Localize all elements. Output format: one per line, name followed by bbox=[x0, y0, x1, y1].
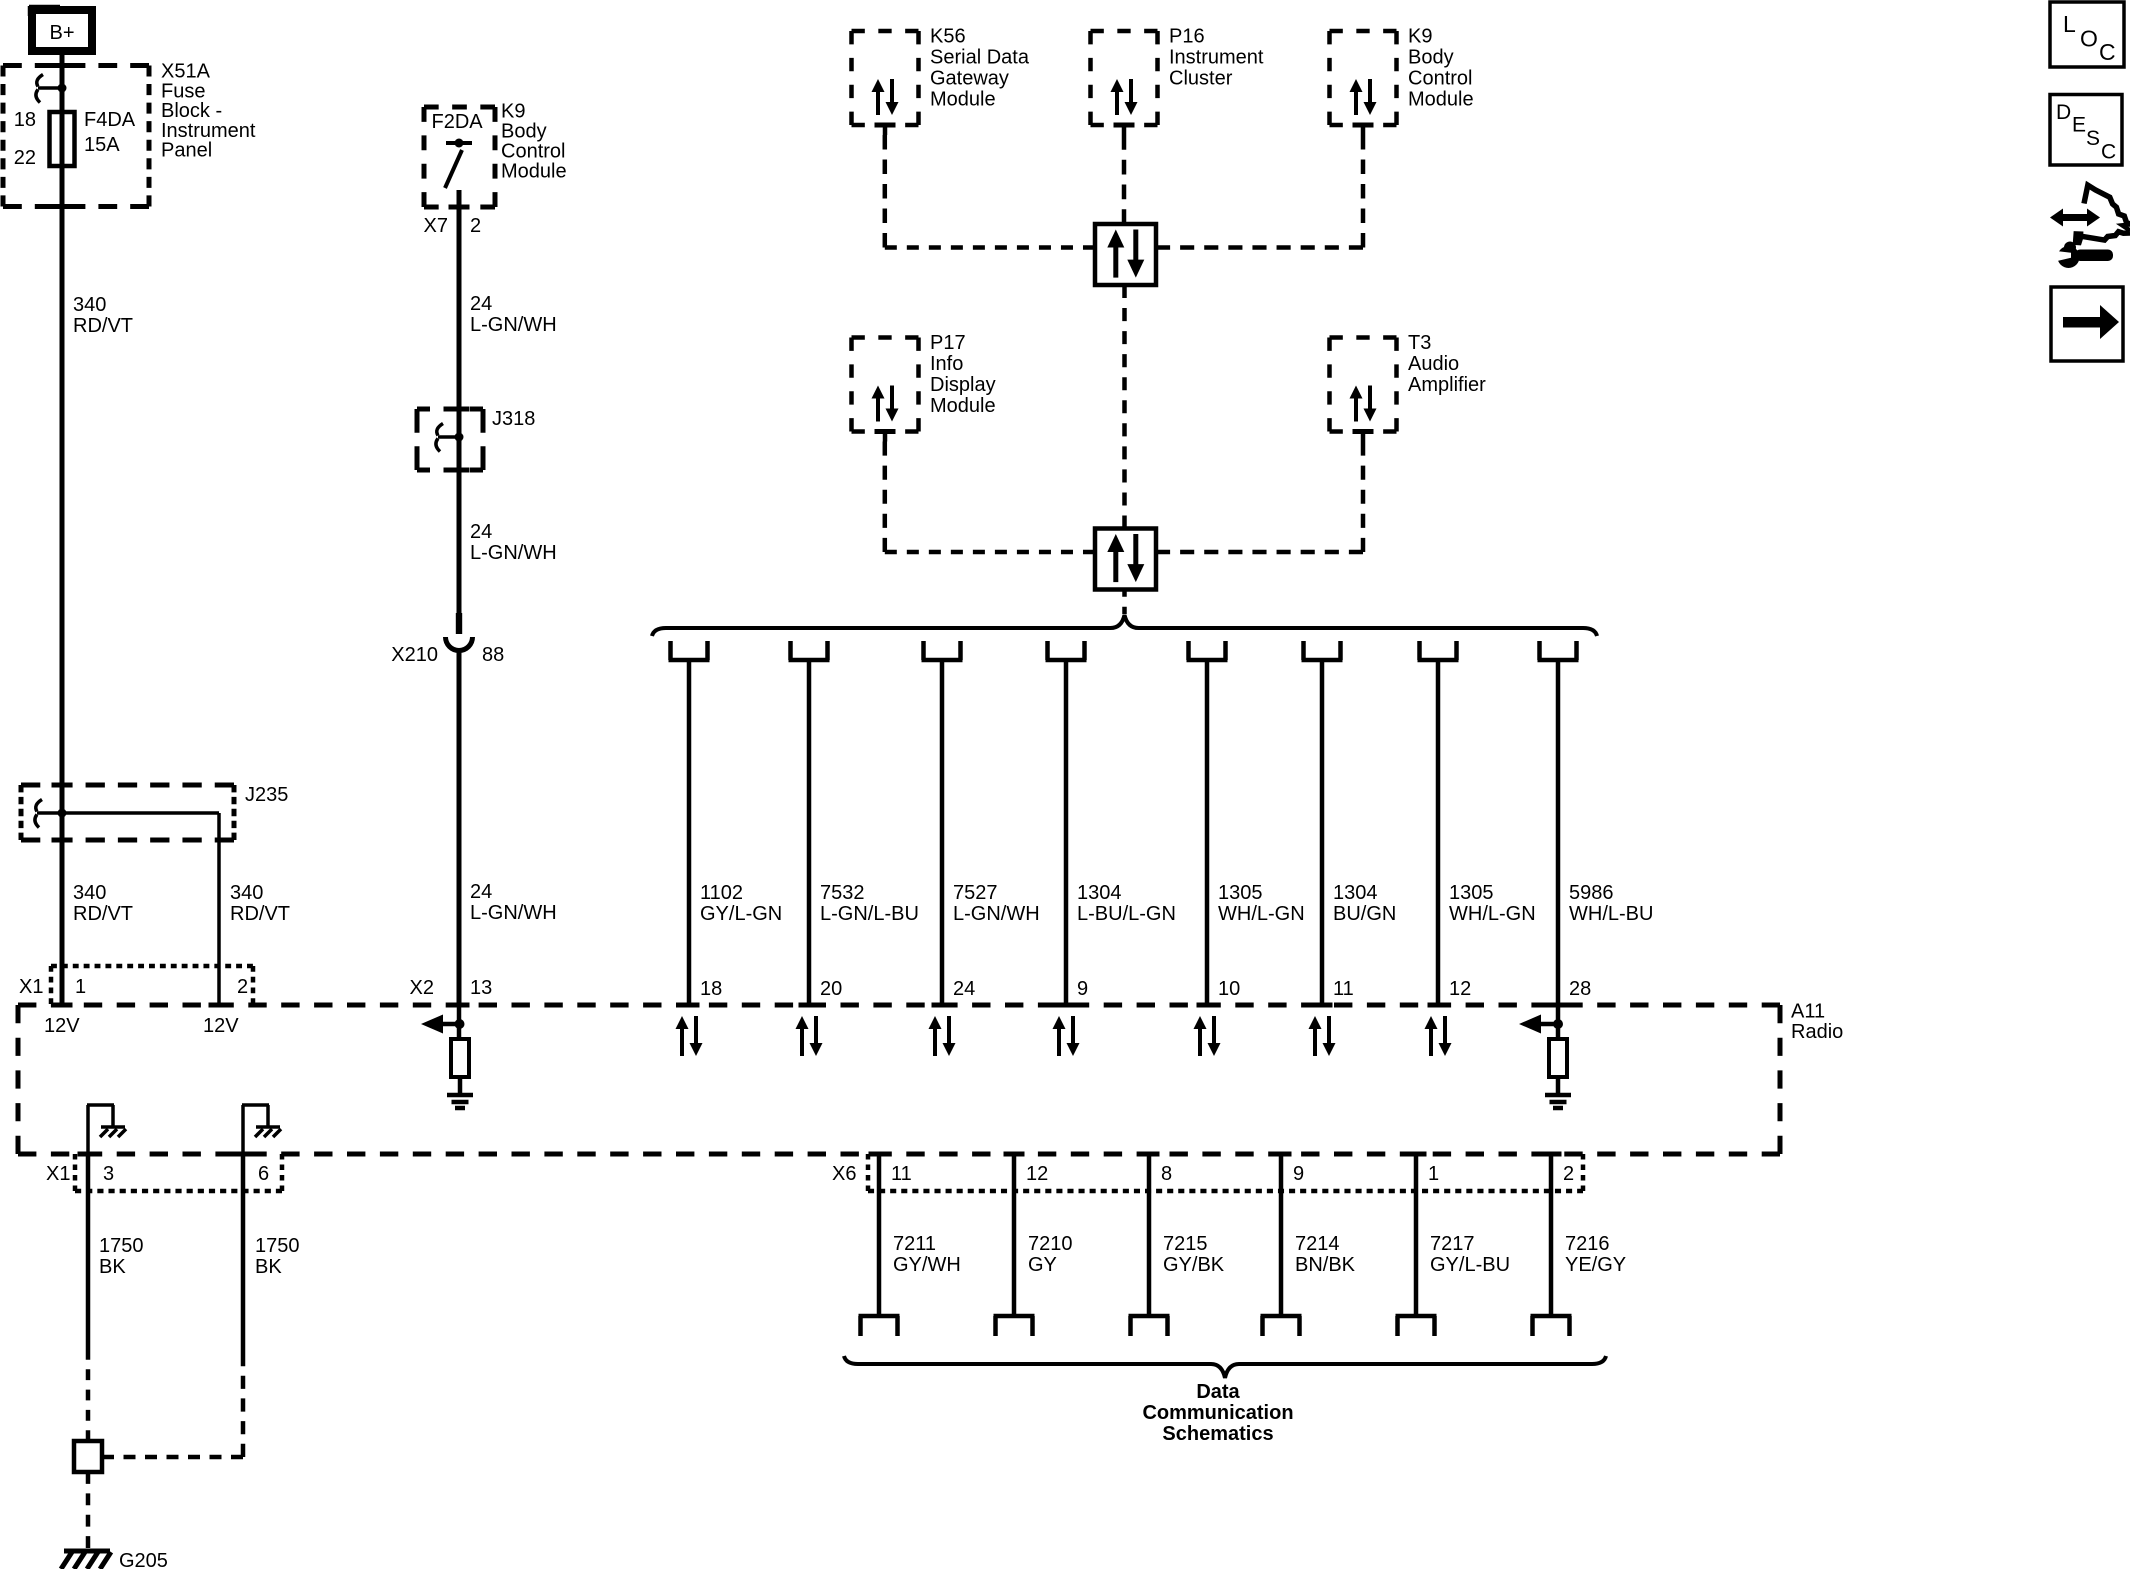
svg-text:340: 340 bbox=[230, 882, 263, 904]
svg-text:WH/L-GN: WH/L-GN bbox=[1449, 903, 1536, 925]
svg-text:88: 88 bbox=[482, 644, 504, 666]
svg-text:1305: 1305 bbox=[1218, 882, 1263, 904]
svg-text:20: 20 bbox=[820, 978, 842, 1000]
svg-text:24: 24 bbox=[470, 881, 492, 903]
svg-text:18: 18 bbox=[700, 978, 722, 1000]
svg-text:T3: T3 bbox=[1408, 332, 1431, 354]
svg-text:11: 11 bbox=[891, 1163, 912, 1185]
svg-text:L-GN/WH: L-GN/WH bbox=[470, 902, 557, 924]
svg-text:A11: A11 bbox=[1791, 1001, 1825, 1023]
svg-text:12: 12 bbox=[1449, 978, 1471, 1000]
svg-text:1305: 1305 bbox=[1449, 882, 1494, 904]
svg-text:24: 24 bbox=[470, 521, 492, 543]
svg-text:X51A: X51A bbox=[161, 61, 211, 83]
svg-text:2: 2 bbox=[237, 976, 248, 998]
svg-text:7532: 7532 bbox=[820, 882, 865, 904]
svg-text:K9: K9 bbox=[1408, 26, 1432, 48]
svg-text:GY/WH: GY/WH bbox=[893, 1254, 961, 1276]
svg-text:G205: G205 bbox=[119, 1550, 168, 1569]
svg-text:X210: X210 bbox=[391, 644, 438, 666]
svg-text:BK: BK bbox=[255, 1256, 282, 1278]
svg-text:13: 13 bbox=[470, 977, 492, 999]
svg-text:B+: B+ bbox=[49, 22, 74, 44]
svg-text:3: 3 bbox=[103, 1163, 114, 1185]
svg-text:9: 9 bbox=[1293, 1163, 1304, 1185]
svg-text:12V: 12V bbox=[44, 1015, 80, 1037]
svg-text:10: 10 bbox=[1218, 978, 1240, 1000]
svg-text:X2: X2 bbox=[410, 977, 434, 999]
svg-text:24: 24 bbox=[470, 293, 492, 315]
svg-text:BK: BK bbox=[99, 1256, 126, 1278]
svg-text:15A: 15A bbox=[84, 134, 120, 156]
svg-text:Audio: Audio bbox=[1408, 353, 1459, 375]
svg-text:X7: X7 bbox=[424, 215, 448, 237]
svg-text:X1: X1 bbox=[46, 1163, 70, 1185]
svg-text:RD/VT: RD/VT bbox=[73, 903, 133, 925]
svg-text:S: S bbox=[2086, 127, 2100, 150]
svg-text:7527: 7527 bbox=[953, 882, 998, 904]
svg-text:Instrument: Instrument bbox=[1169, 47, 1264, 69]
svg-text:Body: Body bbox=[501, 121, 547, 143]
svg-text:Module: Module bbox=[930, 395, 996, 417]
svg-text:18: 18 bbox=[14, 109, 36, 131]
svg-text:Cluster: Cluster bbox=[1169, 68, 1233, 90]
svg-text:Fuse: Fuse bbox=[161, 80, 205, 102]
svg-text:7215: 7215 bbox=[1163, 1233, 1208, 1255]
svg-text:Display: Display bbox=[930, 374, 996, 396]
svg-text:WH/L-BU: WH/L-BU bbox=[1569, 903, 1653, 925]
svg-text:C: C bbox=[2101, 141, 2116, 164]
svg-text:Control: Control bbox=[501, 141, 565, 163]
svg-text:L-GN/WH: L-GN/WH bbox=[470, 314, 557, 336]
svg-text:L-BU/L-GN: L-BU/L-GN bbox=[1077, 903, 1176, 925]
svg-text:11: 11 bbox=[1333, 978, 1354, 1000]
svg-text:F4DA: F4DA bbox=[84, 109, 136, 131]
svg-text:1102: 1102 bbox=[700, 882, 743, 904]
svg-text:Data: Data bbox=[1196, 1381, 1240, 1403]
svg-text:24: 24 bbox=[953, 978, 975, 1000]
svg-text:Body: Body bbox=[1408, 47, 1454, 69]
svg-text:340: 340 bbox=[73, 882, 106, 904]
svg-text:Info: Info bbox=[930, 353, 963, 375]
svg-text:Schematics: Schematics bbox=[1162, 1423, 1273, 1445]
svg-text:Gateway: Gateway bbox=[930, 68, 1009, 90]
svg-text:Amplifier: Amplifier bbox=[1408, 374, 1486, 396]
svg-text:1304: 1304 bbox=[1077, 882, 1122, 904]
svg-text:L-GN/WH: L-GN/WH bbox=[470, 542, 557, 564]
svg-text:J318: J318 bbox=[492, 408, 535, 430]
svg-text:Control: Control bbox=[1408, 68, 1472, 90]
svg-text:L-GN/WH: L-GN/WH bbox=[953, 903, 1040, 925]
svg-text:7214: 7214 bbox=[1295, 1233, 1340, 1255]
svg-text:L-GN/L-BU: L-GN/L-BU bbox=[820, 903, 919, 925]
svg-text:1750: 1750 bbox=[99, 1235, 144, 1257]
svg-text:Module: Module bbox=[501, 161, 567, 183]
svg-text:5986: 5986 bbox=[1569, 882, 1614, 904]
svg-text:6: 6 bbox=[258, 1163, 269, 1185]
svg-text:J235: J235 bbox=[245, 784, 288, 806]
svg-text:Communication: Communication bbox=[1142, 1402, 1293, 1424]
svg-text:K56: K56 bbox=[930, 26, 966, 48]
svg-text:7210: 7210 bbox=[1028, 1233, 1073, 1255]
svg-text:Serial Data: Serial Data bbox=[930, 47, 1030, 69]
svg-text:Instrument: Instrument bbox=[161, 120, 256, 142]
svg-text:BU/GN: BU/GN bbox=[1333, 903, 1396, 925]
svg-text:Block -: Block - bbox=[161, 100, 222, 122]
svg-text:GY/L-BU: GY/L-BU bbox=[1430, 1254, 1510, 1276]
svg-text:YE/GY: YE/GY bbox=[1565, 1254, 1626, 1276]
svg-text:GY/BK: GY/BK bbox=[1163, 1254, 1225, 1276]
svg-text:X1: X1 bbox=[19, 976, 43, 998]
svg-text:1304: 1304 bbox=[1333, 882, 1378, 904]
svg-text:Module: Module bbox=[1408, 89, 1474, 111]
svg-text:WH/L-GN: WH/L-GN bbox=[1218, 903, 1305, 925]
svg-text:RD/VT: RD/VT bbox=[230, 903, 290, 925]
svg-text:O: O bbox=[2080, 26, 2098, 52]
svg-text:C: C bbox=[2099, 39, 2116, 65]
svg-text:BN/BK: BN/BK bbox=[1295, 1254, 1356, 1276]
svg-text:2: 2 bbox=[470, 215, 481, 237]
svg-text:7217: 7217 bbox=[1430, 1233, 1475, 1255]
svg-text:7211: 7211 bbox=[893, 1233, 936, 1255]
svg-text:X6: X6 bbox=[832, 1163, 856, 1185]
svg-text:12: 12 bbox=[1026, 1163, 1048, 1185]
svg-text:Module: Module bbox=[930, 89, 996, 111]
svg-text:GY: GY bbox=[1028, 1254, 1057, 1276]
svg-text:K9: K9 bbox=[501, 101, 525, 123]
svg-text:22: 22 bbox=[14, 147, 36, 169]
svg-text:9: 9 bbox=[1077, 978, 1088, 1000]
svg-text:E: E bbox=[2072, 114, 2086, 137]
svg-text:P17: P17 bbox=[930, 332, 966, 354]
svg-text:F2DA: F2DA bbox=[432, 111, 484, 133]
svg-text:2: 2 bbox=[1563, 1163, 1574, 1185]
svg-text:7216: 7216 bbox=[1565, 1233, 1610, 1255]
svg-text:Panel: Panel bbox=[161, 140, 212, 162]
svg-text:P16: P16 bbox=[1169, 26, 1205, 48]
svg-text:GY/L-GN: GY/L-GN bbox=[700, 903, 782, 925]
svg-text:12V: 12V bbox=[203, 1015, 239, 1037]
svg-text:L: L bbox=[2063, 11, 2076, 37]
svg-text:1750: 1750 bbox=[255, 1235, 300, 1257]
svg-text:Radio: Radio bbox=[1791, 1021, 1843, 1043]
svg-text:RD/VT: RD/VT bbox=[73, 315, 133, 337]
svg-text:D: D bbox=[2056, 101, 2071, 124]
svg-text:1: 1 bbox=[1428, 1163, 1439, 1185]
svg-text:8: 8 bbox=[1161, 1163, 1172, 1185]
svg-text:1: 1 bbox=[75, 976, 86, 998]
svg-text:28: 28 bbox=[1569, 978, 1591, 1000]
svg-text:340: 340 bbox=[73, 294, 106, 316]
